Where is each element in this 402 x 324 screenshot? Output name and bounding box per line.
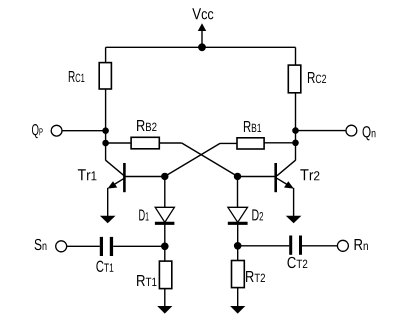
- wire Tr2 base lead: [238, 176, 276, 178]
- ground arrow under RT1: [157, 306, 172, 314]
- wire Qp lead: [62, 130, 106, 132]
- label Tr1: [78, 169, 97, 180]
- diode D1: [155, 207, 174, 222]
- terminal Qn circle: [346, 125, 357, 136]
- label RT1: [137, 275, 156, 286]
- resistor RC2: [288, 65, 301, 93]
- wire Qn lead: [296, 130, 347, 132]
- wire right drop from rail to RC2: [295, 47, 297, 65]
- wire Tr2 emitter vertical: [293, 188, 295, 217]
- ground arrow under Tr1 emitter: [100, 216, 116, 223]
- node Vcc junction dot: [198, 43, 206, 51]
- capacitor CT2 plates: [289, 236, 292, 255]
- Vcc arrowhead: [198, 23, 206, 31]
- label RC2: [308, 72, 326, 83]
- resistor RC1: [99, 63, 111, 89]
- wire RB1 left lead horizontal: [220, 142, 237, 144]
- terminal Sn circle: [56, 241, 67, 252]
- label Rn: [355, 239, 368, 250]
- wire CT1 to node: [113, 245, 165, 247]
- wire left column RC1 bottom to Tr1 collector: [105, 89, 107, 160]
- node RB2 dot: [102, 140, 109, 147]
- transistor Tr1 emitter with arrow: [112, 178, 125, 186]
- wire top supply rail: [106, 46, 296, 48]
- node Tr2 base dot: [234, 173, 241, 180]
- wire left drop from rail to RC1: [105, 47, 107, 62]
- wire RB1 cross-coupling diagonal to Tr1 base: [165, 143, 220, 176]
- label CT2: [287, 257, 307, 268]
- resistor RB2: [131, 137, 159, 149]
- wire node to D2 anode: [237, 176, 239, 207]
- label Qn: [363, 126, 376, 140]
- resistor RT2: [232, 261, 245, 288]
- terminal Qp circle: [51, 125, 62, 136]
- label D1: [139, 209, 148, 220]
- label RC1: [69, 71, 85, 82]
- diode D2: [228, 207, 248, 222]
- node CT1/RT1 dot: [161, 243, 169, 251]
- capacitor CT1 plates: [100, 237, 103, 256]
- wire RB1 right lead: [264, 142, 295, 144]
- label Qp: [32, 124, 43, 138]
- wire Tr1 collector diagonal: [106, 160, 125, 176]
- wire CT2 to Rn: [302, 245, 337, 247]
- wire D1 cathode to RT1: [164, 223, 166, 262]
- label Tr2: [300, 169, 319, 180]
- wire Tr1 emitter vertical: [107, 188, 109, 217]
- terminal Rn circle: [337, 240, 348, 251]
- wire RT1 bottom lead: [164, 289, 166, 307]
- transistor Tr2 emitter with arrow: [277, 178, 290, 186]
- node Qn/collector dot: [292, 127, 299, 134]
- node CT2/RT2 dot: [234, 242, 242, 250]
- wire Tr2 collector diagonal: [277, 160, 296, 176]
- label RT2: [246, 271, 265, 282]
- label Sn: [35, 239, 47, 250]
- wire node to D1 anode: [164, 176, 166, 207]
- label CT1: [96, 261, 113, 272]
- wire Vcc stem: [201, 31, 203, 48]
- transistor Tr1 base bar: [123, 163, 126, 192]
- transistor Tr2 base bar: [274, 163, 277, 192]
- ground arrow under RT2: [230, 306, 245, 314]
- node RB1 dot: [292, 140, 299, 147]
- wire node to CT2: [238, 245, 290, 247]
- label RB1: [244, 121, 261, 132]
- resistor RT1: [159, 261, 171, 289]
- wire RB2 left lead: [106, 142, 132, 144]
- resistor RB1: [237, 138, 264, 149]
- wire Sn lead to CT1: [67, 245, 100, 247]
- node Qp/collector dot: [102, 127, 109, 134]
- label D2: [252, 209, 263, 220]
- wire RB2 right lead horizontal: [159, 142, 181, 144]
- wire RB2 cross-coupling diagonal to Tr2 base: [182, 143, 238, 176]
- ground arrow under Tr2 emitter: [286, 216, 302, 223]
- node Tr1 base dot: [161, 173, 168, 180]
- wire right column RC2 bottom to Tr2 collector: [295, 93, 297, 161]
- wire D2 cathode to RT2: [237, 223, 239, 261]
- wire RT2 bottom lead: [237, 288, 239, 307]
- wire Tr1 base lead: [124, 176, 164, 178]
- label RB2: [137, 120, 156, 131]
- label Vcc: [192, 8, 213, 19]
